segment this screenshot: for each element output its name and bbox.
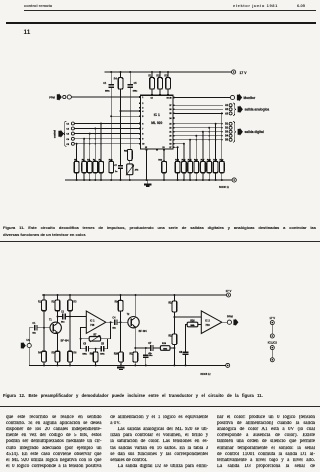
wire xyxy=(29,328,33,344)
resistor R16 xyxy=(194,161,199,173)
terminal Monitor xyxy=(230,95,234,99)
svg-text:17 V: 17 V xyxy=(240,71,248,75)
wire xyxy=(174,127,223,129)
wire xyxy=(81,328,87,339)
wire xyxy=(134,295,136,318)
transistor T1 BF494 xyxy=(50,322,61,333)
rule below caption 12 xyxy=(0,405,320,408)
wire xyxy=(110,72,112,84)
caption figure 11 xyxy=(3,224,316,238)
wire xyxy=(183,144,185,162)
resistor R9 xyxy=(118,300,123,311)
wire xyxy=(145,348,147,355)
junction xyxy=(43,294,45,296)
svg-text:100n: 100n xyxy=(105,91,110,93)
wire xyxy=(37,327,50,329)
capacitor C4 xyxy=(115,319,117,325)
wire xyxy=(145,357,147,365)
wire xyxy=(134,348,136,352)
svg-text:16: 16 xyxy=(167,98,169,100)
wire xyxy=(221,113,223,161)
svg-text:control: control xyxy=(54,130,57,138)
resistor R5 xyxy=(55,351,60,362)
wire xyxy=(129,160,131,164)
junction xyxy=(129,71,131,73)
wire xyxy=(174,123,223,125)
svg-text:47k: 47k xyxy=(135,169,139,172)
wire xyxy=(57,332,59,351)
svg-text:D3: D3 xyxy=(225,132,229,134)
svg-text:9: 9 xyxy=(142,139,143,141)
wire xyxy=(120,164,122,167)
svg-text:20: 20 xyxy=(169,136,171,138)
resistor R4 xyxy=(118,78,123,90)
svg-text:R4: R4 xyxy=(114,78,118,81)
wire xyxy=(28,348,30,366)
wire xyxy=(71,96,140,98)
terminal PPM output xyxy=(227,320,231,324)
svg-text:C5: C5 xyxy=(66,144,69,146)
svg-text:7: 7 xyxy=(142,128,143,130)
wire xyxy=(94,173,96,180)
body text columns xyxy=(0,0,320,1)
capacitor C7 xyxy=(151,345,153,351)
svg-text:C4: C4 xyxy=(112,316,116,319)
resistor R9 xyxy=(99,161,104,173)
resistor R3 xyxy=(166,78,171,90)
resistor R5 xyxy=(74,161,79,173)
wire xyxy=(134,327,136,348)
svg-text:A1: A1 xyxy=(225,104,229,107)
wire xyxy=(43,328,45,351)
svg-text:R3: R3 xyxy=(73,301,77,303)
svg-text:22: 22 xyxy=(169,128,171,130)
svg-text:17: 17 xyxy=(169,147,171,149)
capacitor C1 xyxy=(35,325,37,331)
wire xyxy=(173,295,175,301)
wire xyxy=(174,108,223,110)
wire xyxy=(174,139,223,141)
wire xyxy=(174,97,230,99)
svg-text:ML 920: ML 920 xyxy=(151,121,162,125)
rule below caption 11 xyxy=(0,240,320,243)
junction xyxy=(120,294,122,296)
junction xyxy=(167,71,169,73)
caption figure 12 xyxy=(3,393,317,398)
svg-text:D1: D1 xyxy=(225,124,229,126)
capacitor C4 xyxy=(108,85,114,87)
wire xyxy=(74,143,140,145)
svg-text:17 V: 17 V xyxy=(226,289,232,293)
svg-text:IC 2: IC 2 xyxy=(205,319,210,323)
svg-text:Monitor: Monitor xyxy=(244,96,256,100)
wire xyxy=(221,173,223,180)
wire xyxy=(111,115,140,117)
resistor R11 xyxy=(133,352,138,362)
wire xyxy=(65,316,86,318)
junction xyxy=(110,71,112,73)
wire xyxy=(94,129,96,162)
svg-text:C4: C4 xyxy=(103,82,107,85)
resistor R15 xyxy=(172,334,177,345)
svg-text:IC 1: IC 1 xyxy=(154,113,160,117)
svg-text:C7: C7 xyxy=(148,343,152,345)
wire xyxy=(198,324,201,326)
wire xyxy=(208,173,210,180)
pin stubs IC1 left xyxy=(139,97,140,144)
resistor R4 xyxy=(42,351,47,362)
wire xyxy=(120,72,122,78)
svg-text:100n: 100n xyxy=(82,353,87,355)
capacitor C8 xyxy=(183,352,189,354)
brace salida digital xyxy=(233,122,236,143)
svg-text:2: 2 xyxy=(142,103,143,105)
wire xyxy=(195,136,197,162)
resistor R19 xyxy=(213,161,218,173)
wire xyxy=(69,295,71,300)
wire xyxy=(173,312,175,334)
junction xyxy=(151,71,153,73)
resistor R10 xyxy=(119,352,124,362)
junction xyxy=(69,294,71,296)
wire xyxy=(81,339,87,349)
wire xyxy=(174,143,184,145)
svg-text:C5: C5 xyxy=(101,344,105,346)
svg-text:18: 18 xyxy=(169,144,172,146)
wire xyxy=(83,139,85,162)
svg-text:PPM: PPM xyxy=(49,95,55,99)
header running title xyxy=(24,3,52,8)
resistor R20 xyxy=(220,161,225,173)
svg-text:21: 21 xyxy=(169,132,172,134)
wire xyxy=(110,116,112,161)
wire xyxy=(147,180,149,184)
wire xyxy=(151,72,153,78)
resistor R8 xyxy=(93,352,98,362)
svg-text:14: 14 xyxy=(151,97,154,100)
wire xyxy=(195,173,197,180)
capacitor C2 xyxy=(63,314,65,320)
svg-text:T2: T2 xyxy=(127,314,130,316)
wire xyxy=(129,175,131,180)
op-amp IC1 748 xyxy=(86,311,106,333)
wire xyxy=(69,311,71,317)
wire xyxy=(106,321,114,323)
svg-text:C5: C5 xyxy=(134,83,138,85)
terminal ground (fig 12) xyxy=(226,363,230,367)
section number 11 xyxy=(24,29,31,36)
wire xyxy=(170,347,174,349)
resistor R17 xyxy=(201,161,206,173)
svg-text:27: 27 xyxy=(169,105,171,107)
terminal IC supply + xyxy=(270,334,274,338)
wire xyxy=(89,134,91,162)
svg-text:D4: D4 xyxy=(225,135,229,138)
svg-text:A3: A3 xyxy=(225,112,229,115)
wire xyxy=(117,321,128,323)
svg-text:10u: 10u xyxy=(149,355,153,357)
resistor R14 xyxy=(172,301,177,312)
wire xyxy=(74,133,140,135)
ground (fig 12) xyxy=(117,367,124,369)
terminal IC supply - xyxy=(270,346,274,350)
wire xyxy=(159,72,161,78)
svg-text:R16: R16 xyxy=(190,320,195,322)
wire xyxy=(65,179,232,181)
svg-text:10: 10 xyxy=(142,144,144,146)
svg-text:D2: D2 xyxy=(225,128,229,130)
svg-text:19: 19 xyxy=(169,140,171,142)
wire xyxy=(29,364,225,366)
wire xyxy=(100,124,102,162)
brace input group xyxy=(63,121,66,146)
resistor R3 xyxy=(68,300,73,311)
svg-text:6: 6 xyxy=(142,123,143,125)
resistor R7 xyxy=(87,161,92,173)
wire xyxy=(104,339,108,349)
junction xyxy=(159,71,161,73)
terminal 0V (supply column) xyxy=(270,358,274,362)
svg-text:R13: R13 xyxy=(162,343,167,345)
svg-text:C1: C1 xyxy=(66,124,69,126)
junction xyxy=(173,294,175,296)
resistor R10 xyxy=(109,161,114,173)
svg-text:12: 12 xyxy=(145,147,147,149)
header thin rule xyxy=(24,9,316,12)
terminal ground (fig 11) xyxy=(232,178,236,182)
wire xyxy=(153,347,160,349)
svg-text:13: 13 xyxy=(162,147,164,149)
wire xyxy=(101,322,111,339)
svg-text:PPM: PPM xyxy=(227,314,234,318)
svg-text:C4: C4 xyxy=(66,138,69,141)
header thick rule xyxy=(6,22,316,24)
wire xyxy=(129,88,131,149)
wire xyxy=(110,173,112,180)
wire xyxy=(134,362,136,365)
resistor R2 xyxy=(158,78,163,90)
svg-text:D5: D5 xyxy=(225,140,229,142)
wire xyxy=(163,173,165,180)
wire xyxy=(43,362,45,365)
wire xyxy=(76,173,78,180)
svg-text:1n: 1n xyxy=(115,171,118,173)
wire xyxy=(173,345,175,366)
wire xyxy=(95,349,97,352)
wire xyxy=(202,132,204,162)
wire xyxy=(215,173,217,180)
resistor R14 xyxy=(182,161,187,173)
svg-text:10n: 10n xyxy=(32,333,36,335)
resistor R1 xyxy=(42,300,47,311)
wire xyxy=(189,140,191,162)
svg-text:28: 28 xyxy=(169,97,172,99)
wire xyxy=(95,362,97,366)
svg-text:8: 8 xyxy=(142,133,144,135)
svg-text:748: 748 xyxy=(90,323,95,327)
wire xyxy=(69,317,71,352)
wire xyxy=(208,128,210,162)
wire xyxy=(120,362,122,365)
wire xyxy=(105,71,232,73)
wire xyxy=(177,147,179,161)
svg-text:C2: C2 xyxy=(61,312,65,314)
wire xyxy=(120,295,122,300)
svg-text:25: 25 xyxy=(169,113,172,115)
wire xyxy=(135,347,150,349)
svg-text:3: 3 xyxy=(142,107,143,109)
resistor R6 xyxy=(82,161,87,173)
wire xyxy=(129,72,131,84)
wire xyxy=(43,295,45,300)
op-amp U IC1 ML920 decoder xyxy=(141,95,173,149)
brace salida analogica xyxy=(233,103,236,116)
resistor R15 xyxy=(188,161,193,173)
wire xyxy=(189,173,191,180)
wire xyxy=(42,294,226,296)
svg-text:C7: C7 xyxy=(114,165,117,167)
svg-text:IC1,IC2: IC1,IC2 xyxy=(268,341,278,345)
arrow input group xyxy=(58,130,64,138)
svg-text:A2: A2 xyxy=(225,108,229,111)
svg-text:23: 23 xyxy=(169,124,171,126)
resistor R11 xyxy=(128,149,133,160)
svg-text:17 V: 17 V xyxy=(269,316,275,320)
wire xyxy=(215,124,217,162)
svg-text:100n: 100n xyxy=(133,91,138,93)
svg-text:10u: 10u xyxy=(61,321,65,323)
wire xyxy=(121,110,141,112)
svg-text:C8: C8 xyxy=(179,352,183,354)
wire xyxy=(57,311,59,323)
wire xyxy=(89,348,102,350)
wire xyxy=(57,362,59,365)
svg-text:100k: 100k xyxy=(163,348,167,350)
wire xyxy=(57,295,59,300)
wire xyxy=(120,111,122,165)
svg-text:748: 748 xyxy=(205,323,210,327)
wire xyxy=(174,316,201,318)
capacitor C3 xyxy=(86,346,88,352)
resistor R6 xyxy=(68,351,73,362)
capacitor C6 xyxy=(143,355,148,357)
svg-text:80008 12: 80008 12 xyxy=(200,373,211,376)
svg-text:4: 4 xyxy=(142,110,144,113)
wire xyxy=(151,89,153,95)
svg-text:salida digital: salida digital xyxy=(245,130,264,134)
potentiometer P1 xyxy=(127,164,133,175)
wire xyxy=(146,150,148,180)
wire xyxy=(120,168,122,180)
wire xyxy=(271,350,273,358)
capacitor C5 xyxy=(101,346,103,352)
svg-text:1: 1 xyxy=(142,97,144,99)
svg-text:BF 494: BF 494 xyxy=(139,330,148,333)
wire xyxy=(120,89,122,111)
svg-text:BF 494: BF 494 xyxy=(61,340,70,343)
wire xyxy=(120,311,122,352)
wire xyxy=(74,123,140,125)
wire xyxy=(186,325,188,352)
svg-text:80008 11: 80008 11 xyxy=(219,186,230,189)
resistor R12 xyxy=(162,161,167,173)
svg-text:salida analogica: salida analogica xyxy=(245,108,270,112)
wire xyxy=(177,173,179,180)
svg-text:C3: C3 xyxy=(66,134,69,136)
wire xyxy=(174,131,223,133)
svg-text:C2: C2 xyxy=(66,129,69,131)
wire xyxy=(174,146,177,148)
resistor R18 xyxy=(207,161,212,173)
wire xyxy=(81,338,90,340)
wire xyxy=(174,112,223,114)
wire xyxy=(89,173,91,180)
resistor R12 xyxy=(160,346,170,351)
op-amp IC2 748 xyxy=(201,311,222,334)
svg-text:C1: C1 xyxy=(32,323,36,325)
wire xyxy=(100,173,102,180)
wire xyxy=(202,173,204,180)
junction xyxy=(120,71,122,73)
resistor P1 xyxy=(89,337,100,342)
svg-text:5: 5 xyxy=(142,116,144,118)
wire xyxy=(167,89,169,95)
wire xyxy=(174,135,223,137)
wire xyxy=(76,144,78,162)
svg-text:10n: 10n xyxy=(112,327,116,329)
wire xyxy=(271,325,273,334)
svg-text:T1: T1 xyxy=(49,319,52,321)
svg-text:IC 1: IC 1 xyxy=(90,319,95,323)
svg-text:C3: C3 xyxy=(83,344,87,346)
resistor R13 xyxy=(175,161,180,173)
resistor R16 xyxy=(187,322,198,327)
junction xyxy=(135,294,137,296)
svg-text:26: 26 xyxy=(169,109,171,111)
wire xyxy=(167,72,169,78)
wire xyxy=(222,321,228,323)
wire xyxy=(174,104,223,106)
svg-text:R10: R10 xyxy=(114,353,119,355)
svg-text:R6: R6 xyxy=(73,353,77,355)
capacitor C5 xyxy=(127,85,133,87)
wire xyxy=(69,362,71,365)
wire xyxy=(74,138,140,140)
svg-text:US: US xyxy=(26,338,30,342)
svg-text:24: 24 xyxy=(169,117,172,120)
wire xyxy=(159,89,161,95)
junction xyxy=(57,294,59,296)
resistor R2 xyxy=(55,300,60,311)
transistor T2 BF494 xyxy=(128,317,139,328)
wire xyxy=(43,311,45,328)
resistor R8 xyxy=(93,161,98,173)
wire xyxy=(163,150,165,161)
wire xyxy=(110,88,112,116)
wire xyxy=(185,354,187,365)
svg-text:100n: 100n xyxy=(100,353,105,355)
terminal 17V (fig 12) xyxy=(227,293,231,297)
svg-text:500k: 500k xyxy=(191,325,195,327)
capacitor C7 xyxy=(118,166,123,168)
wire xyxy=(58,316,62,318)
wire xyxy=(83,173,85,180)
terminal 17V (fig 11) xyxy=(232,70,236,74)
wire xyxy=(183,173,185,180)
resistor R1 xyxy=(150,78,155,90)
wire xyxy=(74,128,140,130)
